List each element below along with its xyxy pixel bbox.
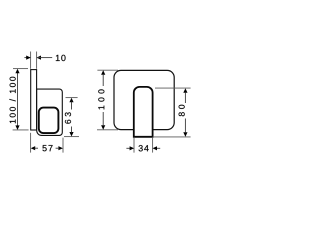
dimension 34 : dimension line and arrows [126, 147, 130, 149]
dimension 100 / 100 : dimension line and arrows [17, 73, 19, 127]
dimension 57 : value label [42, 145, 52, 151]
dimension 100 / 100 : plate height, extension ticks [13, 68, 28, 70]
handle (front view, rounded-top bar protruding below plate) [134, 87, 153, 137]
dimension 80 : value label (rotated) [179, 105, 185, 116]
dimension 10 : dimension line and arrows [24, 57, 30, 59]
dimension 57 : depth, extension lines [30, 133, 32, 153]
handle grip inner loop (thick rounded rectangle) [39, 108, 59, 134]
dimension 100 : dimension line and arrows [101, 70, 105, 75]
dimension 10 : value label [56, 55, 66, 61]
dimension 57 : dimension line and arrows [31, 146, 36, 150]
dimension 34 : handle width, extension lines [133, 138, 135, 153]
escutcheon plate (side profile, thin vertical rectangle) [31, 70, 37, 130]
escutcheon plate (front, rounded square) [114, 70, 174, 129]
dimension 63 : dimension line and arrows [69, 98, 73, 103]
dimension 80 : handle height, extension ticks [155, 87, 191, 89]
technical dimension drawing: wall-mounted single-lever mixer trim, side view (left) and front view (right) [0, 0, 200, 200]
dimension 63 : value label (rotated) [65, 112, 71, 123]
dimension 34 : value label [139, 145, 149, 151]
dimension 63 : handle height, extension ticks [66, 97, 78, 99]
dimension 80 : dimension line and arrows [183, 88, 187, 93]
dimension 10 : plate thickness, extension lines [30, 52, 32, 69]
dimension 100 : plate height, extension ticks [97, 69, 118, 71]
handle outer outline (side profile) [37, 89, 63, 135]
dimension 100 : value label (rotated) [98, 89, 104, 109]
dimension 100 / 100 : value label (rotated) [9, 77, 15, 123]
